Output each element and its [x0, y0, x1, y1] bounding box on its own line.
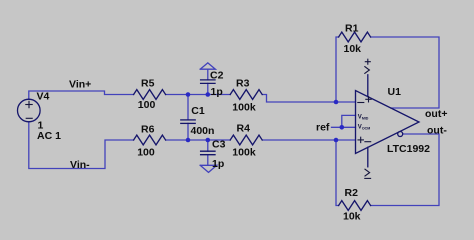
svg-text:ref: ref [316, 122, 330, 134]
svg-text:10k: 10k [343, 211, 361, 223]
svg-text:Vin-: Vin- [70, 159, 90, 171]
svg-text:100k: 100k [232, 101, 256, 113]
svg-text:10k: 10k [344, 43, 362, 55]
svg-text:VOCM: VOCM [358, 124, 370, 130]
svg-text:100k: 100k [232, 146, 256, 158]
svg-text:VMID: VMID [358, 115, 369, 121]
svg-text:C2: C2 [210, 70, 224, 82]
svg-text:R6: R6 [141, 124, 155, 136]
svg-text:Vin+: Vin+ [69, 78, 91, 90]
svg-text:AC 1: AC 1 [37, 130, 61, 142]
svg-text:LTC1992: LTC1992 [387, 143, 430, 155]
svg-text:R4: R4 [237, 123, 251, 135]
svg-text:C1: C1 [191, 105, 205, 117]
svg-text:400n: 400n [191, 125, 215, 137]
svg-text:R2: R2 [345, 187, 359, 199]
svg-text:100: 100 [137, 147, 155, 159]
svg-text:U1: U1 [388, 86, 402, 98]
svg-text:out+: out+ [425, 108, 447, 120]
svg-text:1p: 1p [211, 86, 223, 98]
svg-text:R5: R5 [141, 77, 155, 89]
svg-text:R3: R3 [236, 77, 250, 89]
svg-text:R1: R1 [345, 23, 359, 35]
svg-text:1p: 1p [212, 158, 224, 170]
svg-text:C3: C3 [212, 139, 226, 151]
svg-text:out-: out- [427, 124, 447, 136]
svg-text:100: 100 [138, 99, 156, 111]
svg-text:V4: V4 [37, 90, 50, 102]
